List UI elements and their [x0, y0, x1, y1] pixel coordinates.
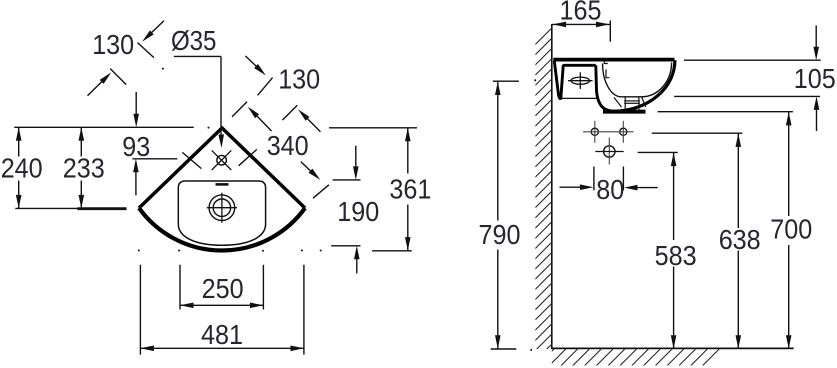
svg-text:361: 361: [389, 173, 431, 204]
svg-text:105: 105: [794, 63, 836, 94]
svg-text:233: 233: [63, 153, 105, 184]
svg-text:165: 165: [560, 0, 602, 26]
svg-text:240: 240: [1, 153, 43, 184]
svg-text:250: 250: [202, 273, 244, 304]
svg-text:93: 93: [122, 131, 150, 162]
svg-text:190: 190: [337, 196, 379, 227]
svg-text:340: 340: [267, 130, 309, 161]
svg-text:Ø35: Ø35: [171, 25, 217, 56]
svg-text:130: 130: [278, 64, 320, 95]
svg-text:790: 790: [479, 219, 521, 250]
svg-text:638: 638: [719, 224, 761, 255]
svg-text:80: 80: [596, 174, 624, 205]
svg-text:130: 130: [92, 29, 134, 60]
svg-text:700: 700: [770, 214, 812, 245]
svg-text:481: 481: [201, 319, 243, 350]
svg-text:583: 583: [655, 240, 697, 271]
